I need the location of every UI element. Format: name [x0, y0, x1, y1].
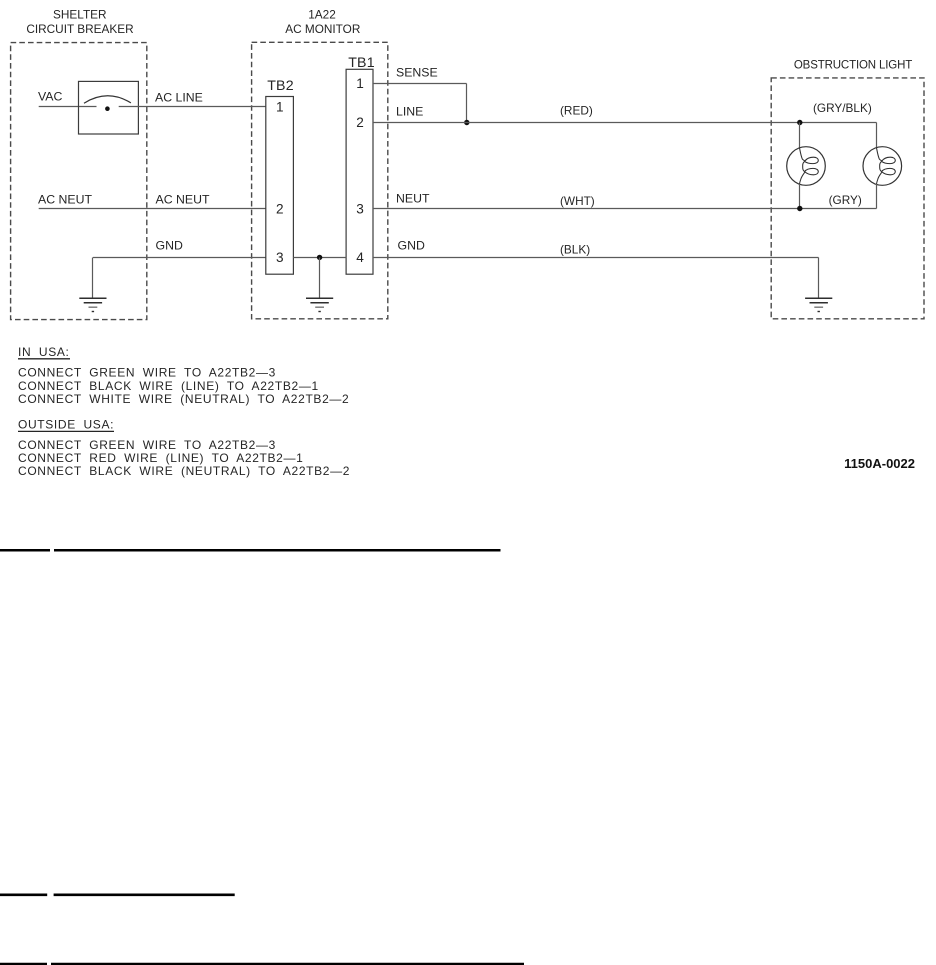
svg-text:CIRCUIT BREAKER: CIRCUIT BREAKER: [26, 22, 133, 36]
svg-text:2: 2: [356, 115, 364, 130]
svg-text:OBSTRUCTION LIGHT: OBSTRUCTION LIGHT: [794, 60, 912, 72]
svg-text:NEUT: NEUT: [396, 191, 430, 205]
svg-text:TB2: TB2: [267, 78, 294, 94]
svg-text:AC NEUT: AC NEUT: [38, 193, 92, 207]
svg-text:(WHT): (WHT): [560, 194, 595, 208]
svg-text:(GRY/BLK): (GRY/BLK): [813, 101, 872, 115]
node GND junction at AC monitor: [317, 255, 322, 260]
circuit breaker CB1: [79, 81, 139, 134]
note IN USA heading: [18, 345, 70, 359]
svg-text:OUTSIDE USA:: OUTSIDE USA:: [18, 418, 114, 432]
AC monitor dashed enclosure: [252, 42, 388, 319]
ground obstruction light: [805, 298, 832, 311]
svg-text:IN USA:: IN USA:: [18, 345, 70, 359]
svg-text:4: 4: [356, 250, 364, 265]
wire lamp1 bottom lead: [799, 184, 801, 209]
node LINE junction at lamp 1: [797, 120, 802, 125]
note IN USA lines: [18, 366, 349, 406]
rule 1: [0, 549, 501, 552]
wire AC NEUT to TB2-2: [39, 208, 266, 210]
svg-text:1: 1: [276, 100, 284, 115]
shelter dashed enclosure: [11, 43, 147, 320]
note OUTSIDE USA heading: [18, 418, 114, 432]
title 1A22 AC MONITOR: [285, 8, 360, 36]
ground shelter: [79, 298, 106, 311]
svg-text:(BLK): (BLK): [560, 243, 590, 257]
rule 2: [0, 893, 235, 896]
wire VAC to breaker: [39, 106, 97, 108]
svg-text:SHELTER: SHELTER: [53, 8, 107, 22]
svg-text:CONNECT GREEN WIRE TO A22TB2—3: CONNECT GREEN WIRE TO A22TB2—3: [18, 366, 276, 380]
obstruction light dashed enclosure: [771, 78, 924, 319]
node SENSE/LINE junction: [464, 120, 469, 125]
svg-text:CONNECT BLACK WIRE (NEUTRAL) T: CONNECT BLACK WIRE (NEUTRAL) TO A22TB2—2: [18, 464, 350, 478]
terminal block TB2: [266, 78, 294, 274]
wire to AC monitor ground: [319, 258, 321, 299]
svg-text:3: 3: [356, 202, 364, 217]
wire breaker to TB2-1 (AC LINE): [119, 106, 266, 108]
wire lamp2 top lead: [876, 123, 878, 149]
lamp DS2: [863, 147, 902, 186]
wire GND from TB1-4 to obstruction light: [373, 258, 819, 299]
ground AC monitor: [306, 298, 333, 311]
title SHELTER CIRCUIT BREAKER: [26, 8, 133, 36]
wire NEUT from TB1-3 to lamps: [373, 208, 877, 210]
title OBSTRUCTION LIGHT: [794, 60, 912, 72]
wire SENSE from TB1-1: [373, 84, 467, 123]
svg-text:GND: GND: [156, 239, 183, 253]
lamp DS1: [787, 147, 826, 186]
wire GND shelter to TB2-3: [93, 258, 266, 299]
svg-text:GND: GND: [398, 239, 425, 253]
wire lamp2 bottom lead: [876, 184, 878, 209]
svg-text:3: 3: [276, 250, 284, 265]
wire lamp1 top lead: [799, 123, 801, 149]
svg-text:1150A-0022: 1150A-0022: [844, 456, 915, 471]
svg-text:LINE: LINE: [396, 105, 423, 119]
svg-text:(RED): (RED): [560, 104, 593, 118]
svg-text:AC LINE: AC LINE: [155, 90, 203, 104]
svg-text:AC NEUT: AC NEUT: [156, 193, 210, 207]
terminal block TB1: [346, 55, 375, 274]
note OUTSIDE USA lines: [18, 438, 350, 478]
svg-text:1: 1: [356, 76, 364, 91]
svg-text:VAC: VAC: [38, 89, 62, 103]
wire LINE from TB1-2 to lamps: [373, 122, 877, 124]
svg-text:AC MONITOR: AC MONITOR: [285, 22, 360, 36]
svg-text:2: 2: [276, 202, 284, 217]
svg-text:(GRY): (GRY): [829, 193, 862, 207]
rule 3: [0, 963, 524, 965]
svg-text:SENSE: SENSE: [396, 66, 438, 80]
svg-text:1A22: 1A22: [308, 8, 336, 22]
wire GND bus TB2-3 to TB1-4: [293, 257, 346, 259]
svg-text:CONNECT RED WIRE (LINE) TO A22: CONNECT RED WIRE (LINE) TO A22TB2—1: [18, 451, 303, 465]
svg-text:TB1: TB1: [348, 55, 375, 71]
node NEUT junction at lamp 1: [797, 206, 802, 211]
svg-text:CONNECT WHITE WIRE (NEUTRAL) T: CONNECT WHITE WIRE (NEUTRAL) TO A22TB2—2: [18, 392, 349, 406]
